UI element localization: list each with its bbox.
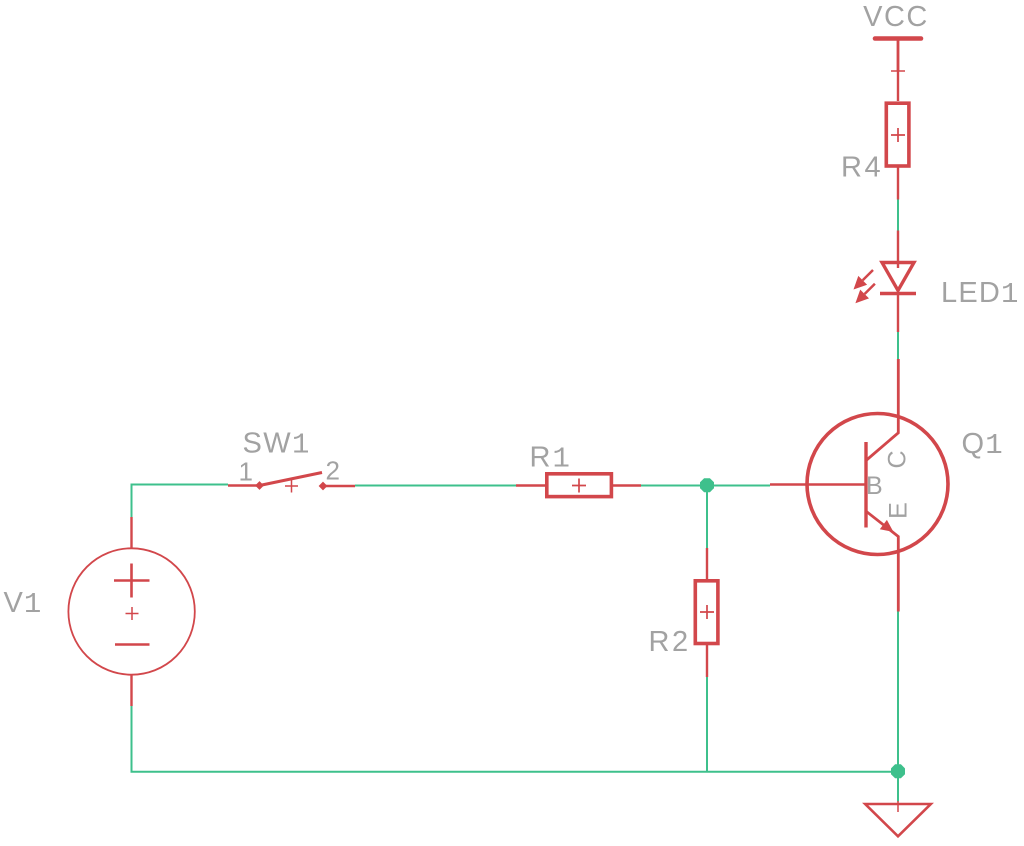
wire V1 to SW1 bbox=[132, 485, 229, 518]
voltage source V1 small plus marker bbox=[126, 607, 139, 620]
power VCC bar symbol bbox=[875, 36, 921, 41]
resistor R4 body bbox=[886, 103, 909, 166]
junction node A bbox=[700, 478, 714, 492]
svg-text:2: 2 bbox=[326, 456, 340, 486]
resistor R2 plus marker bbox=[700, 605, 714, 619]
ground pin stub bbox=[897, 801, 899, 812]
voltage source V1 bottom pin bbox=[130, 675, 132, 707]
voltage source V1 circle bbox=[68, 548, 194, 674]
transistor Q1 emitter bbox=[866, 511, 898, 611]
LED1 light arrow 2 bbox=[855, 284, 875, 304]
wire LED1 to Q1 collector bbox=[897, 332, 899, 359]
svg-text:C: C bbox=[884, 450, 912, 468]
switch SW1 left pin bbox=[228, 484, 259, 486]
svg-text:V1: V1 bbox=[4, 587, 43, 621]
transistor Q1 base pin wire bbox=[770, 483, 866, 485]
resistor R4 bottom pin bbox=[897, 168, 899, 200]
LED1 top pin bbox=[897, 231, 899, 269]
resistor R2 body bbox=[695, 581, 718, 644]
transistor Q1 collector pin bbox=[866, 359, 898, 461]
wire R4 to LED1 bbox=[897, 200, 899, 231]
wire R2 to ground net bbox=[706, 677, 708, 772]
svg-text:R4: R4 bbox=[841, 152, 883, 184]
resistor R1 plus marker bbox=[572, 479, 586, 493]
wire junction to R2 bbox=[706, 491, 708, 548]
LED1 triangle bbox=[882, 263, 914, 291]
resistor R1 right pin bbox=[613, 484, 641, 486]
switch SW1 left contact dot bbox=[255, 481, 264, 490]
voltage source V1 minus bbox=[115, 643, 150, 646]
voltage source V1 top pin bbox=[130, 517, 132, 549]
resistor R1 body bbox=[547, 474, 612, 497]
wire R1 to Q1 base with branch bbox=[641, 485, 770, 487]
resistor R2 bottom pin bbox=[706, 645, 708, 677]
wire bottom ground net bbox=[131, 771, 899, 773]
power VCC pin stem bbox=[897, 39, 900, 72]
svg-text:1: 1 bbox=[239, 457, 253, 487]
svg-text:E: E bbox=[885, 502, 913, 519]
power VCC pin end cross bbox=[891, 70, 905, 72]
junction node GND bbox=[891, 764, 905, 778]
transistor Q1 base bar bbox=[864, 442, 867, 528]
voltage source V1 big plus bbox=[114, 564, 150, 598]
resistor R2 top pin bbox=[706, 548, 708, 579]
LED1 cathode bar bbox=[880, 292, 916, 295]
svg-text:LED1: LED1 bbox=[941, 277, 1020, 311]
wire Q1 emitter to ground net bbox=[897, 612, 899, 772]
svg-text:R2: R2 bbox=[649, 626, 691, 658]
switch SW1 right contact dot bbox=[319, 482, 328, 491]
wire SW1 to R1 bbox=[355, 485, 516, 487]
switch SW1 lever bbox=[260, 473, 323, 486]
LED1 light arrow 1 bbox=[854, 270, 874, 290]
ground symbol triangle bbox=[865, 804, 931, 836]
transistor Q1 circle bbox=[807, 414, 948, 555]
switch SW1 plus marker bbox=[285, 480, 298, 493]
svg-text:R1: R1 bbox=[530, 442, 572, 476]
resistor R4 top pin bbox=[897, 71, 899, 101]
switch SW1 right pin bbox=[323, 485, 355, 487]
svg-text:Q1: Q1 bbox=[962, 428, 1004, 462]
resistor R4 plus marker bbox=[891, 128, 905, 142]
svg-text:B: B bbox=[866, 472, 883, 500]
LED1 bottom pin bbox=[897, 294, 899, 333]
svg-text:VCC: VCC bbox=[863, 1, 929, 33]
resistor R1 left pin bbox=[516, 484, 545, 486]
wire V1 to bottom net bbox=[131, 706, 133, 772]
wire junction to ground symbol bbox=[897, 772, 899, 802]
